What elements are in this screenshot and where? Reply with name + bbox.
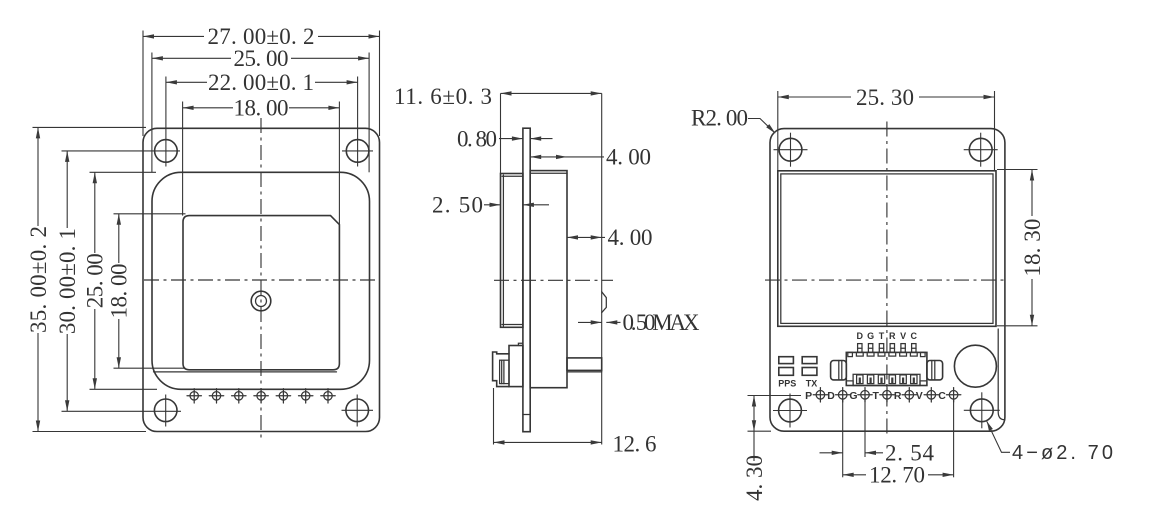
- dim 27.00±0.2 top: [143, 35, 204, 37]
- antenna block inner lines: [502, 175, 504, 326]
- board edge cut line right: [998, 329, 1005, 420]
- svg-text:4. 00: 4. 00: [606, 145, 651, 170]
- svg-text:P: P: [805, 390, 812, 402]
- dim 4.00 lower: [567, 236, 605, 238]
- dim 12.6: [493, 388, 495, 445]
- svg-text:C: C: [911, 331, 918, 341]
- connector ear left: [831, 361, 847, 380]
- svg-text:TX: TX: [806, 379, 818, 389]
- centerline horizontal back: [765, 279, 1008, 281]
- LED pads: [779, 357, 817, 376]
- mounting hole front top-left: [155, 140, 178, 163]
- svg-text:D: D: [857, 331, 864, 341]
- PCB side profile: [523, 128, 530, 432]
- connector pin slots: [857, 375, 917, 384]
- svg-text:C: C: [938, 390, 946, 402]
- svg-text:T: T: [879, 331, 885, 341]
- centerline vertical front: [260, 118, 262, 438]
- dim 0.50MAX: [578, 321, 602, 323]
- battery pad circle: [954, 345, 996, 387]
- dim 25.30: [778, 96, 851, 98]
- bottom connector block side: [509, 346, 523, 387]
- svg-text:12. 6: 12. 6: [613, 432, 657, 457]
- connector housing back: [846, 352, 927, 385]
- dim 12.70: [843, 474, 866, 476]
- shield can side: [530, 171, 567, 388]
- svg-text:25. 00: 25. 00: [83, 253, 108, 308]
- shield can back outer: [778, 171, 996, 326]
- dim 18.30: [1031, 170, 1033, 217]
- dim 2.54: [820, 452, 843, 454]
- mounting hole back top-left: [779, 138, 802, 161]
- dim 18.00 left: [118, 214, 120, 263]
- connector cavity: [853, 374, 920, 385]
- dim 4.30: [753, 396, 755, 462]
- svg-text:18. 00: 18. 00: [234, 96, 289, 121]
- svg-text:R: R: [889, 331, 896, 341]
- svg-text:18. 30: 18. 30: [1020, 219, 1045, 277]
- svg-text:22. 00±0. 1: 22. 00±0. 1: [208, 70, 314, 95]
- antenna ceramic square front: [152, 172, 370, 389]
- svg-text:35. 00±0. 2: 35. 00±0. 2: [26, 226, 51, 333]
- mounting hole front top-right: [346, 140, 369, 163]
- svg-text:D: D: [827, 390, 835, 402]
- dim 22.00±0.1 top: [166, 81, 207, 83]
- board outline front: [143, 128, 380, 431]
- board outline back: [770, 129, 1005, 432]
- pad row circles: [813, 388, 961, 402]
- connector bottom notches: [846, 381, 927, 386]
- bottom connector stepped outline: [493, 352, 509, 387]
- connector pin tails: [858, 344, 916, 353]
- pin holes row front (7x): [187, 389, 335, 403]
- svg-text:PPS: PPS: [778, 379, 796, 389]
- svg-text:R2. 00: R2. 00: [691, 105, 748, 130]
- antenna top metal patch (18x18, chamfered corner): [183, 216, 339, 370]
- dim 18.00 top: [183, 107, 233, 109]
- svg-text:4−ø2. 70: 4−ø2. 70: [1012, 442, 1113, 464]
- battery holder bump side: [602, 292, 607, 313]
- centerline vertical back: [886, 122, 888, 437]
- dim 30.00±0.1 left: [66, 151, 68, 228]
- svg-text:G: G: [867, 331, 874, 341]
- shield lid line: [530, 172, 567, 174]
- connector top slots: [848, 352, 925, 356]
- mounting hole back bottom-right: [970, 399, 993, 422]
- svg-text:T: T: [872, 390, 879, 402]
- svg-text:11. 6±0. 3: 11. 6±0. 3: [394, 84, 492, 109]
- dim 25.00 left: [94, 172, 96, 253]
- pad row letters P D G T R V C: [805, 390, 946, 402]
- shield can back inner: [781, 174, 993, 324]
- centerline horizontal side: [494, 279, 613, 281]
- svg-text:25. 30: 25. 30: [856, 85, 914, 110]
- label 4-Ø2.70 with leader: [987, 421, 1010, 452]
- svg-text:12. 70: 12. 70: [869, 463, 925, 488]
- svg-text:0. 80: 0. 80: [457, 126, 497, 151]
- dim 25.00 top: [152, 57, 231, 59]
- hole crosshairs front: [62, 150, 181, 152]
- svg-text:0. 50MAX: 0. 50MAX: [623, 310, 700, 335]
- connector ear right: [927, 361, 943, 380]
- mounting hole front bottom-left: [154, 399, 177, 422]
- svg-text:18. 00: 18. 00: [107, 264, 132, 319]
- antenna block side: [501, 174, 523, 328]
- patch lower hidden edge: [154, 371, 337, 373]
- svg-text:25. 00: 25. 00: [234, 46, 289, 71]
- svg-text:R: R: [894, 390, 902, 402]
- svg-text:G: G: [849, 390, 857, 402]
- svg-text:V: V: [916, 390, 923, 402]
- mounting hole back top-right: [969, 138, 992, 161]
- mounting hole back bottom-left: [779, 399, 802, 422]
- PCB bottom joint line: [523, 414, 530, 416]
- antenna feed point: [251, 291, 271, 311]
- dim 4.00 upper: [530, 156, 604, 158]
- svg-text:4. 00: 4. 00: [608, 225, 653, 250]
- svg-text:V: V: [900, 331, 906, 341]
- svg-text:30. 00±0. 1: 30. 00±0. 1: [55, 228, 80, 334]
- bottom connector barrel: [500, 360, 509, 383]
- dim 35.00±0.2 left: [37, 127, 39, 226]
- svg-text:4. 30: 4. 30: [742, 455, 767, 501]
- connector side protrusion: [567, 358, 602, 371]
- centerline horizontal front: [144, 279, 378, 281]
- mounting hole front bottom-right: [346, 399, 369, 422]
